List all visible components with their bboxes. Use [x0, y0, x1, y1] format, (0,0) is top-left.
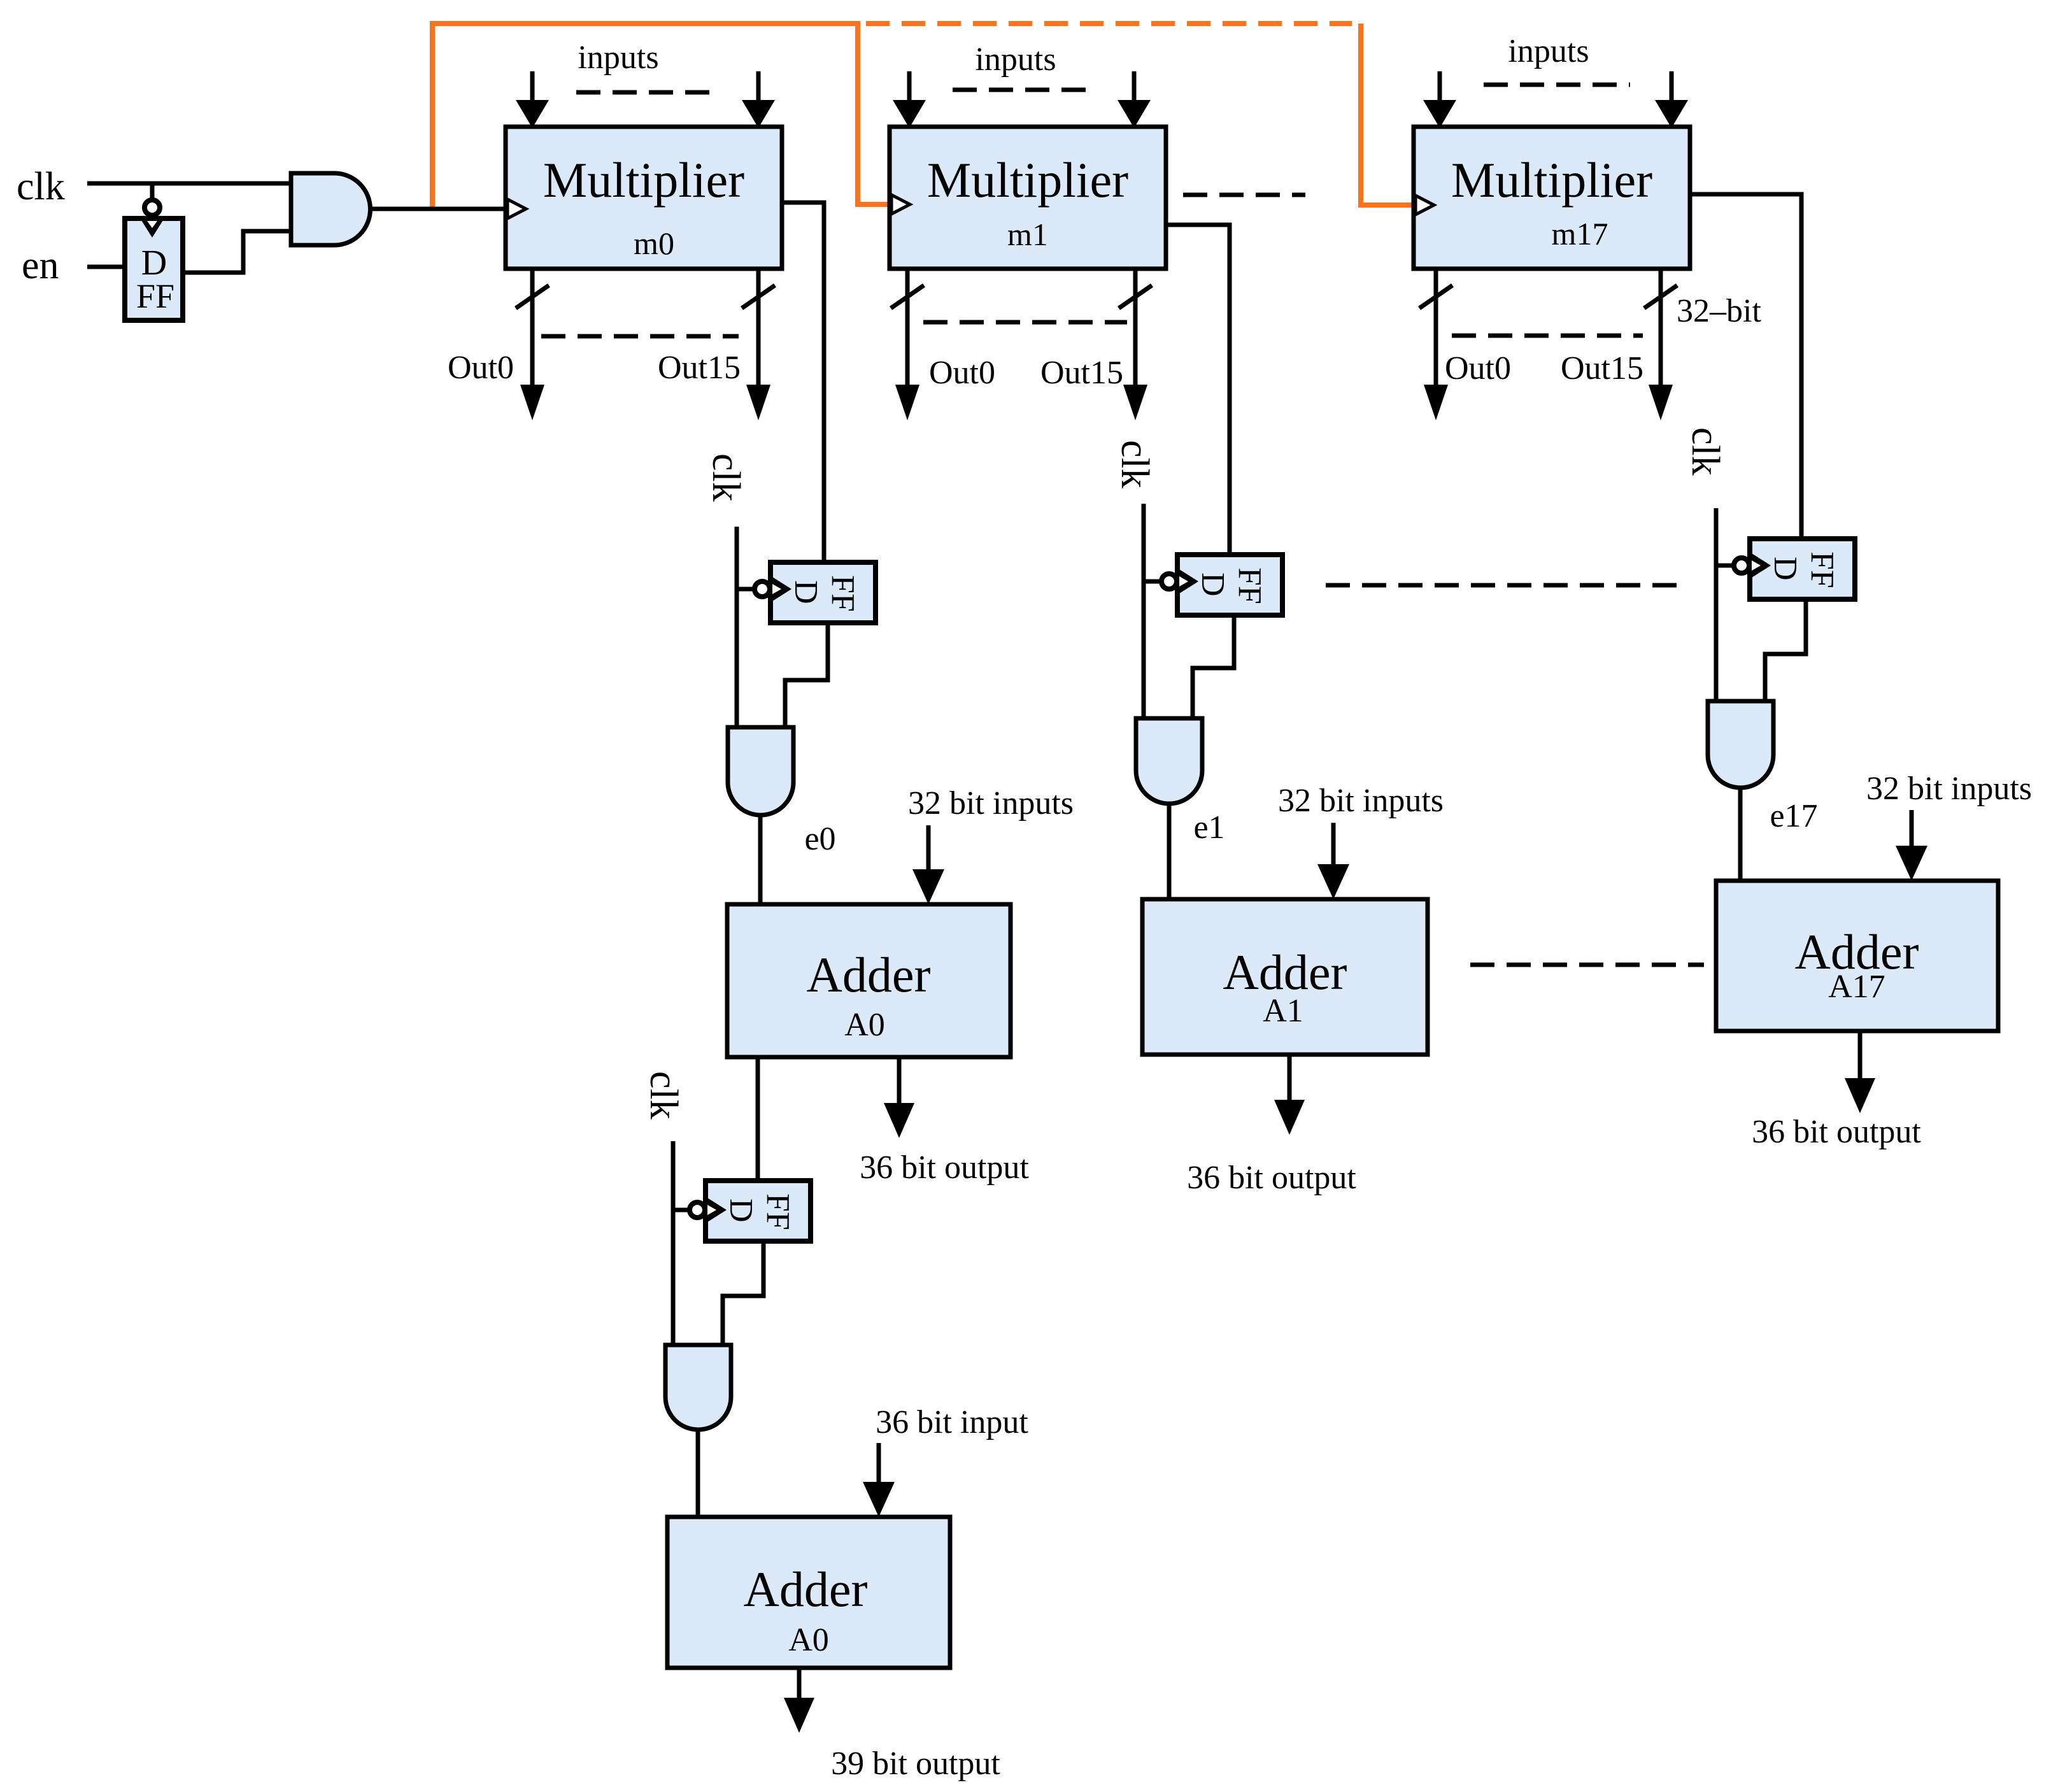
adder A0 (final stage): [667, 1517, 950, 1668]
svg-text:m0: m0: [634, 225, 674, 261]
wire clk (m1 chain): [1142, 504, 1146, 718]
outputs dashed line (m1): [923, 320, 1127, 325]
output arrow 36 bit (A17): [1858, 1031, 1863, 1080]
multiplier m17: [1414, 127, 1690, 269]
svg-text:FF: FF: [1231, 567, 1268, 604]
wire clk stub to DFF3 bubble: [673, 1208, 688, 1212]
input arrow 32 bit (A0): [926, 825, 931, 874]
svg-text:Out0: Out0: [929, 355, 995, 391]
wire m17 output to DFF5: [1689, 194, 1801, 539]
multiplier m1: [890, 127, 1166, 269]
AND gate G0 (clk gating): [291, 173, 371, 245]
svg-text:inputs: inputs: [578, 39, 658, 76]
svg-text:Multiplier: Multiplier: [927, 152, 1128, 208]
svg-text:Multiplier: Multiplier: [1451, 152, 1652, 208]
svg-text:clk: clk: [17, 165, 65, 208]
svg-text:Out0: Out0: [1445, 350, 1511, 387]
wire clk stub to DFF2 bubble: [737, 587, 753, 592]
output Out15 arrow (m0): [756, 269, 761, 387]
svg-text:Out0: Out0: [448, 350, 514, 386]
wire e0 (G1 out to adder A0): [758, 815, 763, 904]
svg-text:Out15: Out15: [658, 350, 741, 386]
wire clk stub to DFF5 bubble: [1716, 564, 1733, 568]
input arrow 32 bit (A17): [1910, 810, 1914, 850]
svg-text:D: D: [1195, 572, 1231, 597]
wire e1 (G3 out to adder A1): [1167, 804, 1172, 899]
wire G2 out to adder A0 final: [696, 1430, 700, 1517]
output arrow 36 bit (A1): [1288, 1055, 1292, 1102]
svg-text:FF: FF: [760, 1193, 796, 1230]
dashed continuation m1 to m17: [1183, 193, 1305, 197]
clock edge marker DFF1: [141, 220, 163, 238]
bus slash Out15 (m0): [742, 285, 775, 308]
wire DFF1 Q to AND gate G0: [183, 231, 291, 273]
svg-text:FF: FF: [136, 277, 174, 315]
dashed continuation A1 to A17: [1470, 963, 1704, 967]
input arrow left (m0): [530, 71, 535, 105]
svg-text:32 bit inputs: 32 bit inputs: [1278, 783, 1444, 819]
svg-text:Out15: Out15: [1040, 355, 1123, 391]
wire m1 output to DFF4: [1166, 225, 1230, 555]
svg-text:A1: A1: [1263, 993, 1303, 1029]
input arrow left (m1): [907, 71, 912, 105]
D flip-flop DFF4 (m1 chain): [1177, 555, 1282, 615]
bus slash Out0 (m0): [516, 285, 549, 308]
wire clk (final chain): [671, 1141, 676, 1345]
svg-text:inputs: inputs: [975, 41, 1056, 78]
input arrow right (m1): [1132, 71, 1137, 105]
wire clk tap to DFF1 clock: [150, 183, 155, 201]
wire en to DFF1 D input: [87, 265, 125, 269]
output Out0 arrow (m1): [905, 269, 910, 387]
svg-text:A0: A0: [788, 1622, 829, 1658]
inputs bus dashed line (m17): [1484, 83, 1630, 87]
svg-text:32 bit inputs: 32 bit inputs: [1866, 771, 2032, 807]
output arrow 36 bit (A0): [897, 1057, 902, 1104]
outputs dashed line (m0): [541, 334, 739, 339]
svg-text:inputs: inputs: [1508, 33, 1589, 69]
D flip-flop DFF1 (enable synchronizer): [125, 218, 183, 320]
svg-text:39 bit output: 39 bit output: [831, 1746, 1000, 1782]
output Out0 arrow (m17): [1434, 269, 1438, 387]
svg-text:Adder: Adder: [1223, 944, 1347, 1000]
svg-text:en: en: [22, 244, 59, 287]
svg-text:36 bit output: 36 bit output: [860, 1149, 1029, 1186]
svg-text:D: D: [788, 580, 824, 604]
adder A17: [1716, 881, 1998, 1031]
svg-text:clk: clk: [1113, 440, 1156, 488]
svg-text:e0: e0: [804, 821, 835, 857]
wire G0 output to multiplier m0 clock: [370, 207, 506, 211]
svg-text:Adder: Adder: [744, 1561, 868, 1617]
wire DFF3 Q to AND gate G2: [723, 1241, 763, 1345]
svg-text:D: D: [723, 1198, 759, 1223]
D flip-flop DFF2 (m0 chain): [770, 562, 876, 623]
clock input marker m17: [1416, 196, 1434, 215]
svg-text:Out15: Out15: [1561, 350, 1643, 387]
inputs bus dashed line (m0): [576, 90, 721, 95]
AND gate G3 (m1 chain): [1136, 718, 1202, 804]
clock bubble DFF1: [145, 200, 160, 215]
D flip-flop DFF3 (final chain): [706, 1181, 811, 1241]
svg-text:36 bit input: 36 bit input: [876, 1404, 1028, 1440]
dashed continuation DFF m1 to DFF m17: [1326, 583, 1682, 588]
svg-text:e1: e1: [1193, 809, 1224, 846]
svg-text:e17: e17: [1770, 798, 1817, 834]
bus slash Out0 (m1): [891, 285, 924, 308]
wire clk (m0 chain): [735, 527, 739, 727]
clock net wire (orange, drop to m17): [1361, 24, 1412, 205]
clock input marker m0: [507, 199, 526, 218]
input arrow left (m17): [1438, 71, 1442, 105]
bus slash Out15 (m17): [1644, 285, 1677, 308]
wire clk stub to DFF4 bubble: [1144, 580, 1160, 584]
svg-text:clk: clk: [704, 453, 748, 502]
svg-text:m17: m17: [1552, 216, 1608, 252]
wire clk to AND gate G0: [87, 181, 291, 186]
wire m0 output to DFF2: [783, 203, 824, 562]
bus slash Out0 (m17): [1419, 285, 1452, 308]
bus slash Out15 (m1): [1119, 285, 1152, 308]
output Out0 arrow (m0): [530, 269, 535, 387]
clock net wire dashed (orange, m1 to m17): [866, 21, 1352, 26]
inputs bus dashed line (m1): [953, 88, 1094, 92]
svg-text:A0: A0: [844, 1007, 885, 1043]
input arrow 32 bit (A1): [1331, 823, 1336, 869]
AND gate G4 (m17 chain): [1708, 701, 1773, 788]
svg-text:D: D: [1767, 557, 1803, 581]
svg-text:36 bit output: 36 bit output: [1752, 1114, 1921, 1150]
AND gate G1 (m0 chain): [728, 727, 793, 815]
output arrow 39 bit (final adder): [797, 1668, 802, 1699]
svg-text:32–bit: 32–bit: [1677, 293, 1761, 329]
svg-text:clk: clk: [1684, 427, 1727, 476]
svg-text:m1: m1: [1007, 217, 1048, 252]
input arrow right (m17): [1670, 71, 1674, 105]
input arrow 36 bit (final adder): [877, 1443, 881, 1486]
wire DFF2 Q to AND gate G1: [785, 623, 828, 727]
wire A0 sum to DFF3: [756, 1057, 760, 1181]
svg-text:Adder: Adder: [807, 947, 931, 1002]
clock net wire (orange, clk to m0/m1): [432, 24, 889, 210]
svg-text:Multiplier: Multiplier: [543, 152, 744, 208]
svg-text:FF: FF: [825, 575, 861, 612]
adder A0: [727, 904, 1011, 1057]
output Out15 arrow (m17): [1659, 269, 1663, 387]
outputs dashed line (m17): [1452, 334, 1643, 338]
svg-text:32 bit inputs: 32 bit inputs: [908, 785, 1074, 821]
clock input marker m1: [891, 195, 910, 214]
wire DFF4 Q to AND gate G3: [1193, 615, 1234, 718]
wire DFF5 Q to AND gate G4: [1765, 599, 1806, 701]
clock bubble + edge marker DFF3: [690, 1202, 705, 1218]
input arrow right (m0): [756, 71, 761, 105]
svg-text:clk: clk: [642, 1071, 685, 1120]
svg-text:A17: A17: [1828, 969, 1885, 1005]
output Out15 arrow (m1): [1133, 269, 1138, 387]
svg-text:FF: FF: [1804, 551, 1840, 588]
clock bubble + edge marker DFF4: [1161, 574, 1177, 589]
svg-text:36 bit output: 36 bit output: [1187, 1160, 1356, 1196]
AND gate G2 (final chain): [665, 1345, 731, 1430]
clock bubble + edge marker DFF2: [755, 581, 770, 597]
multiplier m0: [506, 127, 782, 269]
clock bubble + edge marker DFF5: [1734, 558, 1749, 573]
wire clk (m17 chain): [1714, 508, 1719, 701]
wire e17 (G4 out to adder A17): [1738, 788, 1743, 881]
D flip-flop DFF5 (m17 chain): [1750, 539, 1855, 599]
adder A1: [1142, 899, 1428, 1055]
